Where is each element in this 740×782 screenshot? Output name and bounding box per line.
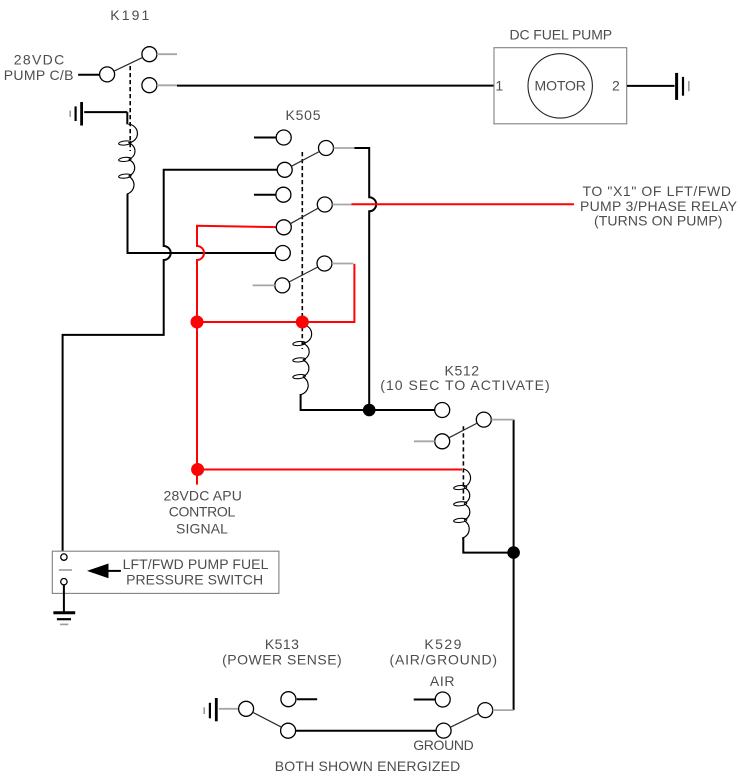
svg-text:(AIR/GROUND): (AIR/GROUND) [390, 651, 498, 667]
contact circle K529 right [478, 703, 493, 718]
dashed actuator line K505 [301, 152, 303, 349]
contact circle K529 AIR [435, 692, 450, 707]
wire K512 right contact down to K529 [513, 420, 515, 710]
stub K505 pole2 NO [254, 194, 276, 196]
svg-text:BOTH SHOWN ENERGIZED: BOTH SHOWN ENERGIZED [275, 758, 461, 774]
label K529 (AIR/GROUND) [390, 636, 498, 667]
wire ground to K191 coil top [84, 111, 127, 113]
contact circle K513 NC [281, 692, 296, 707]
pressure switch contact top [61, 554, 67, 560]
label LFT/FWD PUMP FUEL PRESSURE SWITCH [123, 556, 269, 588]
stub K513 NC [297, 698, 317, 700]
stub K512 right [491, 419, 513, 421]
stub K505 pole3 common [253, 284, 275, 286]
contact circle K191 NC (to motor) [142, 78, 157, 93]
svg-text:28VDC: 28VDC [14, 52, 65, 68]
ground (K191 coil, left-pointing) [70, 102, 81, 126]
contact circle K505 pole3 right [317, 256, 332, 271]
node red junction 28VDC APU control signal [191, 463, 204, 476]
wire pressure switch to ground [63, 585, 65, 612]
stub K191 NC [157, 84, 177, 86]
contact circle K505 pole3 NC [275, 246, 290, 261]
wire K513 ground to common [219, 708, 239, 710]
label TO X1 note [580, 183, 738, 229]
wire junction to K512 relay [369, 409, 435, 411]
contact circle K513 lower [281, 723, 296, 738]
contact circle K505 pole2 right [317, 197, 332, 212]
svg-text:K529: K529 [424, 636, 461, 652]
wire drop into K191 coil [126, 112, 128, 124]
svg-text:2: 2 [612, 78, 620, 94]
dashed actuator line K191 [129, 66, 131, 151]
svg-text:MOTOR: MOTOR [535, 78, 586, 94]
contact circle K529 GROUND [436, 723, 451, 738]
pressure switch blade tick [59, 569, 72, 571]
ground (K513, left-pointing) [204, 698, 216, 721]
svg-text:PUMP C/B: PUMP C/B [4, 67, 74, 83]
node red junction left (28VDC APU riser / coil net) [191, 316, 204, 329]
wire K505 pole1 common going left and down to pressure switch (hops over y=253 wire) [63, 170, 278, 554]
stub K505 pole2 right [332, 204, 351, 206]
contact circle K513 common [239, 701, 254, 716]
label K513 (POWER SENSE) [222, 636, 342, 667]
blade K513 [253, 712, 282, 727]
svg-text:LFT/FWD PUMP FUEL: LFT/FWD PUMP FUEL [123, 556, 269, 572]
wire K505 coil bottom to junction [301, 394, 370, 410]
stub K529 right [493, 709, 514, 711]
label K512 [380, 362, 549, 393]
wire K191 NC to motor pin 1 [177, 85, 494, 87]
red wire K505 pole3 right down to coil node [197, 264, 354, 322]
pressure switch contact bottom [61, 579, 67, 585]
contact circle K512 right [476, 412, 491, 427]
wire from 28VDC PUMP C/B label to K191 common [78, 74, 99, 76]
svg-text:TO "X1" OF LFT/FWD: TO "X1" OF LFT/FWD [582, 183, 731, 199]
red wire K505 pole2 common from APU control (hops over y=253 wire) [197, 226, 276, 485]
stub K505 pole1 right [334, 147, 355, 149]
stub K191 NO [157, 53, 177, 55]
svg-text:(POWER SENSE): (POWER SENSE) [222, 651, 342, 667]
contact circle K512 top-left [435, 403, 450, 418]
coil K512 [453, 469, 470, 538]
motor circle U1 [528, 54, 592, 118]
stub K505 pole1 NO [254, 137, 276, 139]
wire pole1 right to K512 junction (hops over red X1 wire) [354, 148, 376, 410]
contact circle K505 pole1 NO [276, 130, 291, 145]
contact circle K512 lower-left [435, 434, 450, 449]
wire K512 coil bottom to junction [463, 538, 513, 553]
wire K191 coil bottom to K505 pole3 NC [128, 194, 276, 253]
ground (pressure switch) [53, 613, 75, 625]
coil K191 [118, 124, 137, 194]
label 28VDC PUMP C/B [4, 52, 74, 83]
red wire APU control signal to K512 coil [198, 469, 462, 471]
contact circle K505 pole1 right [319, 141, 334, 156]
svg-text:K513: K513 [265, 636, 299, 652]
contact circle K505 pole3 common [275, 278, 290, 293]
coil K505 [293, 325, 312, 395]
node red junction at K505 coil top [296, 316, 309, 329]
svg-text:GROUND: GROUND [413, 737, 474, 753]
contact circle K505 pole2 common [276, 220, 291, 235]
svg-text:(10 SEC TO ACTIVATE): (10 SEC TO ACTIVATE) [380, 377, 549, 393]
svg-text:K505: K505 [286, 107, 321, 123]
svg-text:DC FUEL PUMP: DC FUEL PUMP [510, 26, 613, 42]
svg-text:K191: K191 [110, 7, 149, 23]
svg-text:PUMP 3/PHASE RELAY: PUMP 3/PHASE RELAY [580, 198, 738, 214]
svg-text:28VDC APU: 28VDC APU [164, 488, 242, 504]
pressure switch box [52, 551, 279, 593]
blade K505 pole1 [291, 152, 319, 167]
blade K512 [449, 423, 477, 438]
wire K513 to K529 [296, 730, 437, 732]
red wire to X1 of LFT/FWD pump 3-phase relay [352, 203, 575, 205]
svg-text:K512: K512 [445, 362, 480, 378]
stub K505 pole3 right [332, 263, 353, 265]
contact circle K505 pole2 NO [276, 187, 291, 202]
stub K529 AIR [414, 699, 436, 701]
node black junction K512 coil / ground chain [507, 546, 520, 559]
stub K512 lower-left [414, 440, 435, 442]
motor box [494, 48, 627, 124]
node black junction K505/K512 [363, 404, 376, 417]
dashed actuator line K512 [462, 426, 464, 500]
blade K505 pole3 [289, 267, 318, 282]
contact circle K191 NO [142, 47, 157, 62]
blade K191 [114, 57, 143, 71]
label 28VDC APU CONTROL SIGNAL [164, 488, 242, 537]
ground (motor, right-pointing) [677, 73, 689, 100]
svg-text:AIR: AIR [430, 673, 455, 689]
contact circle K505 pole1 common [277, 162, 292, 177]
svg-text:SIGNAL: SIGNAL [176, 520, 228, 536]
svg-text:PRESSURE SWITCH: PRESSURE SWITCH [126, 572, 263, 588]
svg-text:(TURNS ON PUMP): (TURNS ON PUMP) [594, 213, 723, 229]
blade K529 [450, 713, 478, 727]
wire motor pin 2 to ground [627, 85, 675, 87]
contact circle K191 common [100, 67, 115, 82]
svg-text:1: 1 [495, 78, 503, 94]
svg-text:CONTROL: CONTROL [169, 503, 236, 519]
blade K505 pole2 [290, 208, 318, 224]
arrow to pressure switch [87, 564, 121, 579]
